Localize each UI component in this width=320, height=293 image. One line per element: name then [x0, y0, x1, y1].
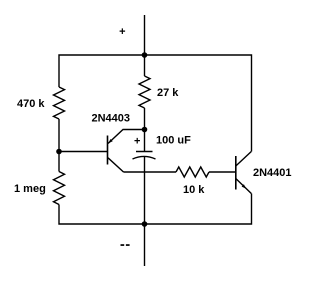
svg-text:100 uF: 100 uF — [156, 135, 191, 147]
svg-text:27 k: 27 k — [157, 87, 179, 99]
svg-text:+: + — [134, 135, 140, 147]
svg-text:2N4403: 2N4403 — [92, 113, 131, 125]
junction dot bottom rail — [142, 221, 148, 227]
wire center branch upper — [144, 55, 146, 76]
svg-text:2N4401: 2N4401 — [253, 167, 292, 179]
wire V- stub — [144, 224, 146, 266]
resistor R4 10 k — [176, 167, 209, 177]
capacitor C1 bottom lead — [144, 156, 146, 224]
wire bottom rail with left and right corners — [59, 194, 252, 225]
wire center branch to node A — [144, 108, 146, 130]
svg-text:470 k: 470 k — [17, 98, 45, 110]
wire mid horizontal collector to R4 — [124, 171, 177, 173]
capacitor C1 curved plate — [133, 156, 156, 159]
resistor R1 470 k — [54, 87, 65, 119]
transistor Q1 emitter — [108, 130, 145, 144]
transistor Q2 2N4401 base bar — [235, 156, 237, 190]
transistor Q2 emitter arrowhead — [242, 184, 246, 188]
label minus supply dash 2 — [126, 244, 130, 246]
wire left branch middle — [58, 119, 60, 172]
label minus supply dash 1 — [121, 244, 125, 246]
svg-text:1 meg: 1 meg — [14, 183, 46, 195]
wire V+ feed stub — [144, 15, 146, 55]
svg-text:10 k: 10 k — [183, 184, 205, 196]
transistor Q1 emitter arrowhead — [108, 139, 112, 143]
transistor Q1 2N4403 base bar — [107, 136, 109, 165]
resistor R2 1 meg — [54, 172, 65, 205]
junction dot top rail — [142, 52, 148, 58]
resistor R3 27 k — [139, 76, 150, 108]
wire R4 to Q2 base — [209, 171, 236, 173]
capacitor C1 flat plate — [136, 151, 153, 153]
svg-text:+: + — [119, 26, 125, 38]
capacitor C1 100 uF top lead — [144, 130, 146, 152]
transistor Q1 collector — [108, 158, 124, 172]
transistor Q2 emitter — [236, 179, 252, 194]
junction dot left base node — [56, 149, 62, 155]
wire top rail with left and right corners — [59, 55, 252, 152]
transistor Q2 collector — [236, 152, 252, 167]
transistor Q1 base wire — [59, 151, 108, 153]
junction dot node A emitter/cap — [142, 127, 148, 133]
